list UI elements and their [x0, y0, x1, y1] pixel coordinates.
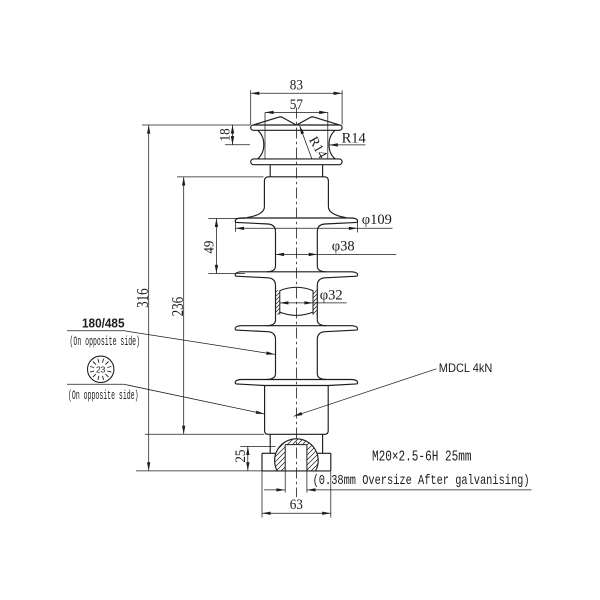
shed 3 left rim tip: [234, 328, 237, 331]
trunk left edge segment 1: [275, 232, 277, 266]
cap cylinder right edge: [322, 165, 324, 177]
shed 2 top fillet right: [317, 266, 326, 272]
svg-text:49: 49: [202, 241, 218, 254]
marking underline: [67, 383, 124, 385]
shed 4 top edge: [236, 380, 358, 382]
shed 1 left rim tip: [234, 220, 237, 223]
shed 3 top edge: [236, 326, 358, 328]
svg-text:φ32: φ32: [320, 288, 343, 304]
saddle top plate: [251, 125, 342, 130]
ball section hatching: [232, 430, 362, 480]
dim 38 line: [276, 253, 397, 255]
shed 3 top fillet right: [317, 320, 326, 326]
neck R14 groove right: [329, 130, 335, 159]
neck R14 groove left: [258, 130, 264, 159]
hub edge / extension line right: [327, 112, 329, 158]
dim 236 extension bottom: [145, 433, 264, 435]
saddle lower flange: [251, 159, 342, 165]
dim 63 extension left: [261, 471, 263, 517]
shed 3 top fillet left: [267, 320, 276, 326]
shed 2 right rim tip: [356, 274, 359, 277]
dim 83 extension right: [341, 90, 343, 125]
shed 1 underside left: [236, 222, 276, 231]
label 180/485 leader: [125, 331, 275, 355]
dim 83 line: [251, 92, 342, 94]
thread dim extension right: [306, 471, 308, 493]
shed 3 right rim tip: [356, 328, 359, 331]
svg-text:MDCL 4kN: MDCL 4kN: [439, 361, 493, 375]
svg-text:25: 25: [233, 450, 249, 463]
svg-text:63: 63: [290, 497, 303, 513]
dim 18 extension bottom: [225, 144, 250, 146]
core bore right edge: [312, 290, 314, 314]
core bore left edge: [279, 290, 281, 314]
thread dim line left: [264, 489, 285, 491]
shed 2 top edge: [236, 272, 358, 274]
svg-text:180/485: 180/485: [82, 317, 125, 331]
dim 32 line: [280, 302, 347, 304]
bottom stem left edge: [269, 434, 271, 453]
dim 49 extension top: [208, 217, 245, 219]
dim 83 extension left: [250, 90, 252, 125]
cap cylinder left edge: [269, 165, 271, 177]
svg-text:23: 23: [96, 365, 106, 375]
centerline: [295, 108, 297, 498]
shed 4 underside right: [328, 384, 357, 386]
dim 49 line: [215, 218, 217, 273]
dim 18 line: [232, 125, 234, 145]
trunk right edge segment 3: [316, 339, 318, 373]
core cutaway hatched band left: [230, 280, 356, 330]
thread dim line right: [307, 489, 532, 491]
svg-text:(On opposite side): (On opposite side): [70, 335, 141, 349]
fitting bell flare right: [328, 206, 346, 217]
top metal fitting block: [264, 177, 328, 207]
dim 63 extension right: [330, 471, 332, 517]
saddle top groove profile left peak: [254, 117, 296, 125]
label 180/485 underline: [67, 330, 125, 332]
svg-text:R14: R14: [342, 130, 367, 146]
thread hole left edge: [284, 445, 286, 471]
fitting bell flare left: [247, 206, 265, 217]
dim 236 line: [183, 177, 185, 434]
shed 2 underside left: [236, 276, 276, 285]
shed 2 top fillet left: [267, 266, 276, 272]
svg-text:316: 316: [133, 288, 152, 308]
shed 2 underside right: [317, 276, 357, 285]
dim 25 line: [247, 446, 249, 470]
ball end spherical outline: [275, 439, 319, 471]
thread hole top: [285, 444, 307, 446]
shed 3 underside left: [236, 330, 276, 339]
R14 side leader: [329, 144, 365, 146]
svg-text:R14: R14: [306, 134, 330, 161]
svg-text:φ38: φ38: [332, 239, 355, 255]
core cutaway hatched band right: [265, 280, 399, 330]
marking tick: [107, 371, 111, 372]
thread dim extension left: [284, 471, 286, 493]
bottom fitting block: [265, 386, 329, 435]
svg-text:18: 18: [218, 128, 234, 141]
marking leader: [124, 384, 265, 414]
shed 1 right rim tip: [356, 220, 359, 223]
base right edge: [330, 453, 332, 471]
thread hole right edge: [306, 445, 308, 471]
marking symbol circle 23: [88, 356, 114, 382]
base top edge right: [317, 452, 331, 454]
bottom fitting top edge: [265, 385, 329, 387]
dim 57 line: [265, 111, 328, 113]
dim 316 extension top: [142, 124, 250, 126]
svg-text:(0.38mm Oversize After galvani: (0.38mm Oversize After galvanising): [313, 473, 530, 489]
svg-text:(On opposite side): (On opposite side): [68, 389, 139, 403]
core bore top arc: [280, 287, 313, 290]
dim 109 extension right: [356, 220, 358, 233]
dim 316 extension bottom: [136, 470, 262, 472]
shed 2 left rim tip: [234, 274, 237, 277]
dim 109 line: [235, 227, 392, 229]
base top edge left: [262, 452, 276, 454]
trunk right edge segment 2: [316, 286, 318, 321]
base left edge: [261, 453, 263, 471]
shed 4 top fillet left: [267, 374, 276, 380]
shed 1 underside right: [317, 222, 357, 231]
shed 4 top fillet right: [317, 374, 326, 380]
dim 109 extension left: [234, 220, 236, 232]
svg-text:φ109: φ109: [362, 212, 392, 228]
MDCL leader: [294, 369, 437, 417]
shed 4 right rim tip: [356, 381, 359, 384]
dim 316 line: [148, 125, 150, 471]
svg-text:83: 83: [290, 77, 303, 93]
trunk right edge segment 1: [316, 232, 318, 266]
svg-text:M20×2.5-6H 25mm: M20×2.5-6H 25mm: [372, 449, 472, 465]
shed 1 top edge: [236, 218, 358, 220]
dim 63 line: [262, 512, 331, 514]
dim 25 extension top: [240, 445, 275, 447]
bottom stem right edge: [322, 434, 324, 453]
shed 4 underside left: [236, 384, 265, 386]
trunk left edge segment 2: [275, 286, 277, 321]
shed 3 underside right: [317, 330, 357, 339]
dim 49 extension bottom: [208, 273, 245, 275]
saddle top groove profile right peak: [297, 117, 339, 125]
trunk left edge segment 3: [275, 339, 277, 373]
R14 groove leader: [300, 126, 312, 159]
svg-text:57: 57: [290, 97, 304, 113]
shed 4 left rim tip: [234, 381, 237, 384]
hub edge / extension line left: [264, 112, 266, 158]
dim 236 extension top: [177, 176, 264, 178]
core bore bottom arc: [280, 312, 313, 315]
svg-text:236: 236: [168, 297, 187, 317]
base bottom edge: [262, 470, 331, 472]
